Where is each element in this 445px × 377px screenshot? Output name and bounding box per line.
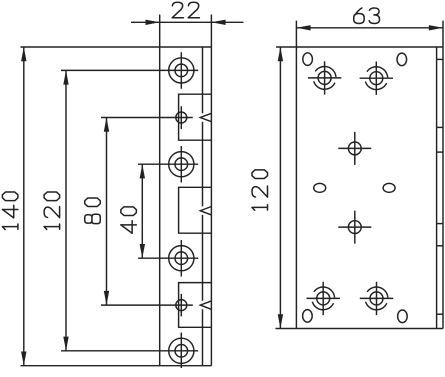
hole H3 counterbored	[138, 146, 198, 183]
right view outline bottom edge with 120 extension	[276, 328, 444, 330]
left view inner vertical line with notch gaps	[202, 47, 204, 366]
fold band tick 3	[437, 151, 443, 153]
notch middle	[200, 207, 211, 215]
left view left edge extended up for 22 dim	[159, 15, 161, 366]
fold band tick 6	[437, 313, 443, 315]
box around hole 5	[179, 283, 212, 328]
dimension 63 line	[296, 25, 443, 30]
hole H4 counterbored	[138, 240, 198, 277]
label 22	[172, 2, 199, 17]
left view outline top edge with 140 extension	[21, 46, 212, 48]
dimension 140 line	[21, 47, 26, 366]
corner slot top-right	[397, 53, 407, 66]
plain hole M2	[338, 211, 371, 244]
corner slot bottom-left	[303, 310, 313, 323]
hole H1 counterbored	[61, 52, 198, 89]
box around hole 2	[179, 94, 212, 140]
dimension 40 line	[140, 164, 145, 258]
corner slot top-left	[303, 53, 313, 66]
fold band tick 1	[437, 58, 443, 60]
fold band tick 5	[437, 245, 443, 247]
label 80	[85, 198, 101, 224]
right view outline top edge with 120 extension	[276, 46, 443, 48]
label 40	[121, 207, 137, 233]
notch at hole 5	[200, 301, 211, 309]
side slot right	[383, 183, 395, 192]
right view left edge extended up for 63 dim	[295, 21, 297, 329]
middle box	[179, 187, 212, 233]
plain hole M1	[338, 132, 371, 165]
label 120	[44, 192, 60, 229]
threaded hole T4	[360, 282, 393, 315]
left view right edge extended up for 22 dim	[210, 15, 212, 366]
left view outline bottom edge with 140 extension	[21, 365, 212, 367]
notch at hole 2	[200, 113, 211, 121]
dimension 120 right view line	[278, 47, 283, 329]
hole H6 counterbored	[61, 333, 198, 369]
dimension 120 line	[63, 70, 68, 350]
threaded hole T3	[307, 282, 340, 315]
threaded hole T1	[308, 61, 341, 94]
label 63	[354, 8, 380, 24]
corner slot bottom-right	[398, 310, 408, 323]
side slot left	[314, 183, 326, 192]
label 120 right view	[252, 170, 268, 210]
label 140	[2, 192, 18, 229]
fold band tick 2	[437, 126, 443, 128]
right view right edge extended up for 63 dim	[442, 21, 444, 329]
right view inner fold line	[436, 47, 438, 329]
fold band tick 4	[437, 223, 443, 225]
dimension 22 line	[131, 20, 244, 25]
dimension 80 line	[104, 118, 109, 306]
hole H5 small	[101, 294, 193, 317]
threaded hole T2	[360, 62, 393, 95]
hole H2 small	[101, 106, 193, 129]
